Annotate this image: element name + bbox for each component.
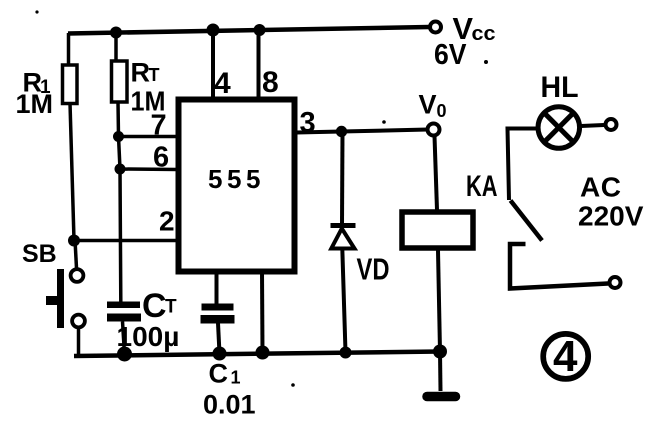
node junction R_T to rail <box>110 27 122 39</box>
node junction pin8 to rail <box>254 24 266 36</box>
node junction 555-rail <box>256 346 270 360</box>
capacitor CT <box>107 302 141 322</box>
wire 555 bottom right to rail <box>260 271 265 353</box>
diode VD triangle <box>331 229 354 249</box>
svg-text:KA: KA <box>466 170 498 203</box>
node junction diode-rail <box>340 347 352 359</box>
svg-text:4: 4 <box>214 67 231 100</box>
op-amp/timer U1 555 body <box>179 100 295 272</box>
terminal AC lower <box>610 277 621 288</box>
node junction pin7 <box>113 131 124 142</box>
svg-text:0.01: 0.01 <box>203 390 256 420</box>
wire 555 bottom left to C1 <box>215 271 219 304</box>
node junction pin6 <box>115 164 126 175</box>
capacitor C1 <box>201 304 235 324</box>
switch lower contact and wire <box>510 244 608 289</box>
lamp HL <box>538 107 580 149</box>
svg-text:8: 8 <box>262 66 279 99</box>
svg-text:SB: SB <box>22 240 57 268</box>
terminal V0 <box>428 124 440 136</box>
wire pin 6 <box>120 167 178 171</box>
node junction C1-rail <box>213 347 227 361</box>
svg-text:T: T <box>165 297 177 318</box>
wire pin 3 to V0 <box>297 130 429 133</box>
svg-text:VD: VD <box>357 252 390 287</box>
svg-text:C: C <box>209 359 229 389</box>
svg-text:6V: 6V <box>434 39 467 71</box>
wire CT bottom to rail <box>123 322 125 355</box>
wire C1 to rail <box>218 323 220 354</box>
svg-text:1M: 1M <box>16 89 54 119</box>
wire V0 to relay <box>435 136 438 210</box>
wire bottom ground rail <box>74 352 440 357</box>
wire lamp left to switch <box>508 129 537 201</box>
wire pin 2 <box>74 239 178 243</box>
svg-text:220V: 220V <box>578 201 644 232</box>
label C1 <box>209 359 241 389</box>
speck <box>291 383 295 387</box>
terminal Vcc <box>430 22 441 33</box>
pushbutton SB upper contact <box>71 269 84 282</box>
svg-text:4: 4 <box>553 332 578 381</box>
wire RT top <box>114 33 118 62</box>
pushbutton SB plunger <box>46 269 64 328</box>
label Vcc <box>453 11 496 46</box>
wire RT bottom through nodes to CT <box>118 102 121 302</box>
speck <box>35 10 38 13</box>
resistor RT <box>112 61 128 102</box>
pushbutton SB lower contact <box>72 315 85 328</box>
wire R1 bottom to node 2 <box>70 103 74 240</box>
svg-text:V: V <box>419 90 437 120</box>
wire diode to rail <box>342 249 345 353</box>
svg-text:7: 7 <box>151 110 167 142</box>
resistor R1 <box>63 65 78 104</box>
svg-text:T: T <box>149 65 160 85</box>
speck <box>382 120 386 124</box>
label RT <box>131 58 160 88</box>
wire R1 top <box>67 33 71 66</box>
diode VD cathode bar <box>331 223 356 228</box>
svg-text:HL: HL <box>541 71 579 104</box>
wire relay to rail <box>438 251 440 352</box>
wire top supply rail <box>68 27 429 34</box>
label V0 <box>419 90 447 122</box>
wire lamp right terminal <box>581 125 604 126</box>
svg-text:R: R <box>131 58 151 88</box>
wire node2 to SB <box>75 240 77 268</box>
node junction CT-rail <box>117 347 132 362</box>
wire node3 down to diode <box>340 132 345 226</box>
svg-text:1: 1 <box>231 368 241 388</box>
label CT <box>142 287 177 325</box>
switch KA blade <box>511 201 543 241</box>
svg-text:3: 3 <box>300 107 316 139</box>
svg-text:2: 2 <box>159 206 175 237</box>
speck <box>484 60 488 64</box>
label R1 <box>23 68 52 99</box>
node junction pin3/diode <box>336 126 347 137</box>
svg-text:AC: AC <box>580 172 621 203</box>
relay coil KA <box>402 212 473 248</box>
node junction pin2 <box>68 235 80 247</box>
svg-text:cc: cc <box>472 23 496 45</box>
node junction relay-rail <box>433 345 447 359</box>
wire pin 8 <box>257 30 261 98</box>
wire pin 7 <box>119 135 179 139</box>
terminal AC right of lamp <box>606 119 617 130</box>
svg-text:555: 555 <box>208 164 265 194</box>
wire SB bottom to rail <box>77 327 81 354</box>
wire pin 4 <box>211 30 215 98</box>
svg-text:C: C <box>142 287 167 325</box>
svg-text:0: 0 <box>437 101 447 121</box>
wire rail to ground <box>438 352 443 392</box>
svg-text:6: 6 <box>153 142 169 174</box>
ground <box>427 392 456 402</box>
figure number 4 circled <box>543 332 588 381</box>
node junction pin4 to rail <box>207 24 220 37</box>
